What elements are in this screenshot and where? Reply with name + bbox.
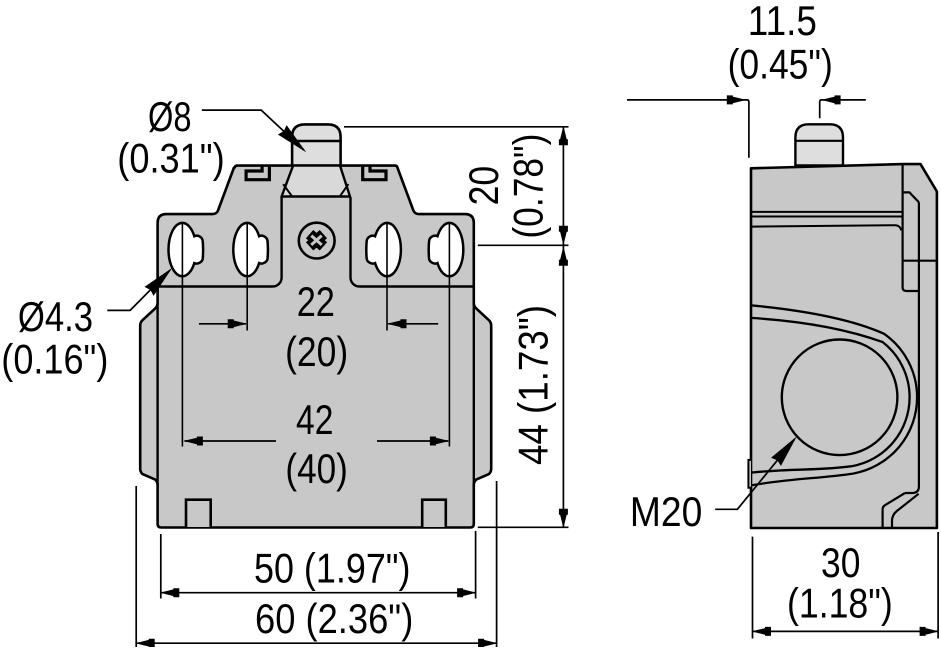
screw cross recess [310, 234, 324, 246]
left edge tab [748, 460, 751, 488]
mounting hole 2 [233, 223, 268, 276]
plunger collar line (side) [795, 140, 843, 142]
body outline (side view) [751, 164, 937, 528]
cover seam lines [751, 212, 903, 217]
arrowheads dim 22 [228, 319, 248, 328]
hole 3 centerline [386, 224, 388, 331]
dim 44 vertical line [562, 245, 564, 527]
hole 1 centerline [181, 224, 183, 447]
svg-text:42: 42 [296, 396, 333, 443]
plunger (front view) [292, 124, 341, 166]
dim 60 extension lines [136, 481, 496, 647]
arrowheads dim 20 [559, 126, 568, 146]
svg-text:22: 22 [297, 278, 335, 325]
mid extension line right [478, 244, 569, 246]
svg-text:20: 20 [460, 166, 507, 206]
arrowheads dim 42 [183, 437, 203, 446]
dim 30 line [753, 630, 938, 632]
svg-text:Ø8: Ø8 [148, 93, 192, 140]
raceway inner curve [751, 318, 910, 473]
hat notch right [363, 166, 386, 180]
raceway outer curve [751, 305, 917, 485]
hat notch left [246, 166, 269, 180]
dart M20 [771, 432, 802, 466]
lower notch diagonal B [892, 494, 919, 527]
boss trapezoid under plunger [282, 166, 350, 197]
bottom tab right [422, 500, 446, 527]
dim 50 line [161, 592, 475, 594]
body outline (front view) [140, 166, 491, 528]
svg-text:Ø4.3: Ø4.3 [18, 293, 93, 340]
dim 11.5 left witness [627, 100, 749, 158]
leader Ø8 [202, 110, 304, 150]
arrowheads dim 60 [135, 639, 155, 648]
svg-text:44 (1.73"): 44 (1.73") [510, 305, 557, 465]
leader M20 [715, 440, 794, 510]
arrowheads dim 50 [160, 588, 180, 597]
plunger (side view) [795, 124, 843, 165]
dim 42 right arrowline [377, 440, 448, 442]
svg-text:60 (2.36"): 60 (2.36") [255, 595, 413, 642]
svg-text:50 (1.97"): 50 (1.97") [254, 545, 411, 592]
arrowheads dim 30 [752, 627, 772, 636]
bottom extension line right [478, 526, 569, 528]
pocket contour (right wall + shelf) [351, 197, 474, 287]
svg-text:11.5: 11.5 [748, 0, 817, 44]
plunger collar line [292, 140, 341, 142]
svg-text:(0.31"): (0.31") [117, 135, 224, 182]
svg-text:(0.45"): (0.45") [728, 41, 833, 88]
svg-text:M20: M20 [630, 488, 702, 535]
ear inner vertical [905, 202, 919, 493]
arrowheads dim 11.5 [727, 95, 747, 104]
dim 20 vertical line [562, 127, 564, 246]
ear bottom line [903, 260, 937, 262]
dim 22 left arrowline [199, 323, 246, 325]
M20 conduit circle [782, 340, 898, 456]
dim 60 line [136, 642, 496, 644]
svg-text:(0.16"): (0.16") [1, 336, 108, 383]
pocket contour (left wall + shelf) [158, 197, 282, 287]
front face edge (side) [903, 164, 920, 291]
hole 4 centerline [448, 224, 450, 447]
screw head [299, 223, 335, 259]
dim 22 right arrowline [388, 323, 438, 325]
mounting hole 3 [366, 223, 401, 276]
dart Ø4.3 [144, 263, 176, 295]
dim 50 extension lines [161, 531, 476, 599]
ear top inner step [903, 192, 919, 202]
dart Ø8 [278, 125, 311, 157]
boss corner chamfer marks [283, 184, 348, 196]
mounting hole 4 [429, 223, 464, 276]
dim 42 left arrowline [185, 440, 277, 442]
inner edge lines through bulges [156, 303, 158, 485]
svg-text:(0.78"): (0.78") [505, 134, 552, 239]
arrowheads dim 44 [559, 246, 568, 265]
svg-text:(20): (20) [285, 328, 348, 375]
hole 2 centerline [246, 224, 248, 331]
plunger top extension line [344, 126, 569, 128]
lower notch diagonal A [883, 493, 905, 527]
svg-text:(1.18"): (1.18") [787, 580, 893, 627]
svg-text:(40): (40) [285, 445, 348, 492]
lower seam line [751, 225, 901, 230]
dim 11.5 right witness [820, 100, 866, 118]
leader Ø4.3 [107, 270, 170, 310]
dim 30 extension lines [753, 532, 939, 639]
mounting hole 1 [169, 223, 204, 276]
bottom tab left [186, 500, 211, 527]
